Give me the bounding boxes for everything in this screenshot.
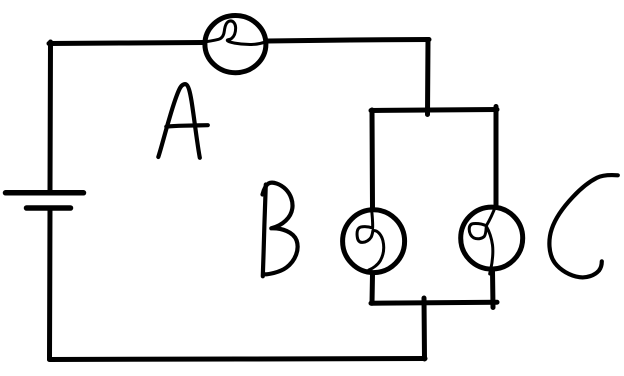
wire: right branch lower vertical — [490, 271, 496, 308]
label B (lamp designator, two strokes) — [263, 185, 266, 277]
wire: left branch lower vertical — [370, 275, 376, 304]
label A (ammeter designator, two strokes) — [158, 84, 200, 158]
battery negative plate (short) — [27, 205, 71, 211]
ammeter A (circle body) — [205, 15, 266, 72]
wire: top rail right segment (ammeter to right corner) — [267, 40, 429, 42]
wire: feed vertical down to parallel top rail — [425, 40, 431, 115]
lamp B filament scribble — [357, 212, 384, 272]
wire: right branch upper vertical — [494, 107, 499, 206]
wire: parallel section bottom rail — [371, 302, 497, 303]
lamp C filament scribble — [469, 206, 496, 275]
wire: left vertical from top rail to battery — [48, 42, 54, 190]
battery positive plate (long) — [6, 190, 84, 196]
wire: left branch upper vertical — [370, 110, 376, 208]
ammeter A scribble element — [202, 21, 269, 45]
lamp C (circle body) — [461, 207, 523, 269]
lamp B (circle body) — [343, 210, 405, 273]
wire: left vertical from battery to bottom rail — [47, 208, 53, 360]
wire: tap from parallel bottom rail down — [422, 298, 428, 359]
label C (lamp designator) — [549, 175, 617, 277]
wire: parallel section top rail — [371, 110, 497, 111]
wire: top rail left segment (battery corner to ammeter) — [49, 43, 204, 44]
wire: bottom rail — [50, 359, 426, 360]
